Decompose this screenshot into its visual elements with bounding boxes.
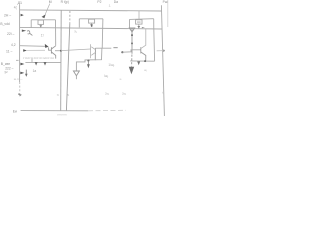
arrowhead on mid wire [45, 44, 49, 48]
wire mid vertical right dashed top [69, 11, 71, 24]
dash mark on mid wire [113, 47, 117, 49]
arrow input row3 (11) [23, 49, 27, 52]
transistor T1 gate arrow [39, 25, 42, 27]
wire mid vertical right [66, 24, 69, 111]
wire mid row from left bus [20, 45, 45, 48]
svg-text:М: М [49, 0, 52, 4]
svg-text:1/щ.: 1/щ. [108, 63, 114, 67]
wire mid vertical left [60, 10, 63, 111]
wire T1 right leg / Q2 collector [55, 20, 57, 46]
svg-text:Еи: Еи [13, 109, 17, 113]
svg-text:Σ!: Σ! [41, 34, 44, 38]
wire mid row continues to Q3 [61, 49, 91, 51]
wire left bus dashed lower segment [19, 82, 21, 92]
svg-text:ц: ц [67, 93, 69, 97]
wire stub to right bus node [157, 50, 164, 52]
label leader line from M to T1 [45, 4, 50, 15]
wire row3 stub [27, 49, 45, 51]
node dot2 on VD1 column [131, 42, 133, 44]
node dot on right emitter row [144, 60, 146, 62]
node terminal mark bottom of left bus [18, 93, 21, 96]
svg-text:Рш: Рш [163, 0, 168, 4]
svg-text:ц: ц [57, 93, 59, 97]
arrow small down on right emitter row [137, 61, 140, 65]
wire faint page-edge vertical right [167, 0, 169, 27]
wire from T2 leg down-corner path [76, 48, 102, 71]
wire top rail VDD [20, 10, 162, 11]
transistor cell T1 [31, 20, 55, 28]
node junction dot T2 source [91, 25, 93, 27]
svg-text:2щ: 2щ [105, 92, 110, 96]
wire bottom line faint right continuation [88, 109, 126, 112]
arrow input lower left [20, 72, 24, 75]
transistor cell T3 [130, 19, 154, 29]
node dot on VD1 column [131, 34, 133, 36]
svg-text:2щ: 2щ [122, 92, 127, 96]
wire T3 riser from rail [138, 11, 140, 20]
arrow down marker 2 on mid band wire [44, 62, 47, 66]
wire T2 right leg down to mid wire [101, 19, 104, 49]
arrow input row1 (2H) [21, 14, 24, 17]
current arrow I dashed shaft [131, 55, 133, 67]
svg-text:t.: t. [162, 91, 164, 95]
node junction dot mid-left vertical [60, 50, 62, 52]
wire Q2 emitter to node [55, 50, 61, 52]
svg-text:2H –: 2H – [4, 13, 11, 17]
wire from node to Q4 base [122, 50, 140, 52]
wire stub up on mid band wire [31, 59, 33, 63]
svg-text:ш.п —: ш.п — [14, 77, 23, 81]
svg-text:1a: 1a [33, 69, 37, 73]
svg-text:1.: 1. [109, 4, 112, 8]
svg-text:B_vdd: B_vdd [0, 22, 10, 26]
svg-text:4,2: 4,2 [11, 43, 16, 47]
arrow down marker 1 on mid band wire [35, 62, 38, 66]
wire right vertical bus [161, 5, 164, 116]
svg-text:R t(p): R t(p) [61, 0, 69, 4]
arrow input row2 (22i) [22, 30, 26, 32]
svg-text:и.: и. [120, 77, 123, 81]
wire VD2 stem [75, 76, 77, 79]
transistor T2 gate arrow [90, 24, 93, 26]
svg-text:Д1: Д1 [18, 1, 22, 5]
small device squiggle row2 [27, 31, 32, 36]
wire mid row right of Q3 [95, 47, 111, 49]
arrow small tick on row1 wire left of T3 [142, 27, 145, 28]
wire row1 bottom horizontal [20, 27, 162, 29]
svg-text:Da: Da [114, 0, 118, 4]
diode VD1 column [129, 28, 134, 54]
wire mid band left cluster [25, 61, 60, 63]
transistor Q3 (faces left) [91, 44, 96, 60]
wire T3 right leg down to mid band [153, 29, 156, 61]
transistor T3 gate arrow [137, 26, 140, 28]
arrow down from node [87, 61, 90, 69]
svg-text:P2: P2 [97, 0, 101, 4]
transistor Q2 [49, 46, 56, 59]
tick label dash left of bus [16, 59, 19, 61]
svg-text:§2: §2 [4, 70, 8, 74]
wire emitter row right side [130, 60, 155, 62]
node dot on right bus [163, 50, 165, 52]
arrow into mid band left [20, 63, 24, 66]
transistor Q4 [141, 29, 146, 61]
svg-text:Iщ.: Iщ. [104, 74, 109, 78]
svg-text:x₁: x₁ [74, 30, 77, 34]
current arrow I big head [129, 67, 134, 74]
svg-text:лтплтп: лтплтп [57, 112, 67, 116]
svg-text:B_иэп: B_иэп [1, 62, 11, 66]
svg-text:22i –: 22i – [7, 32, 14, 36]
diode VD2 triangle [73, 71, 79, 76]
wire left vertical bus D1 [19, 5, 21, 83]
svg-text:11 –: 11 – [6, 49, 12, 53]
node dot on corner wire [87, 60, 89, 62]
arrowhead of leader M [42, 14, 46, 18]
wire bottom output line [21, 110, 88, 112]
node junction dot x122 [121, 51, 123, 53]
transistor cell T2 [79, 19, 103, 28]
svg-text:тттлтттлтттттллттттл: тттлтттлтттттллттттл [23, 56, 54, 60]
arrow down symbol lower left [25, 70, 28, 77]
